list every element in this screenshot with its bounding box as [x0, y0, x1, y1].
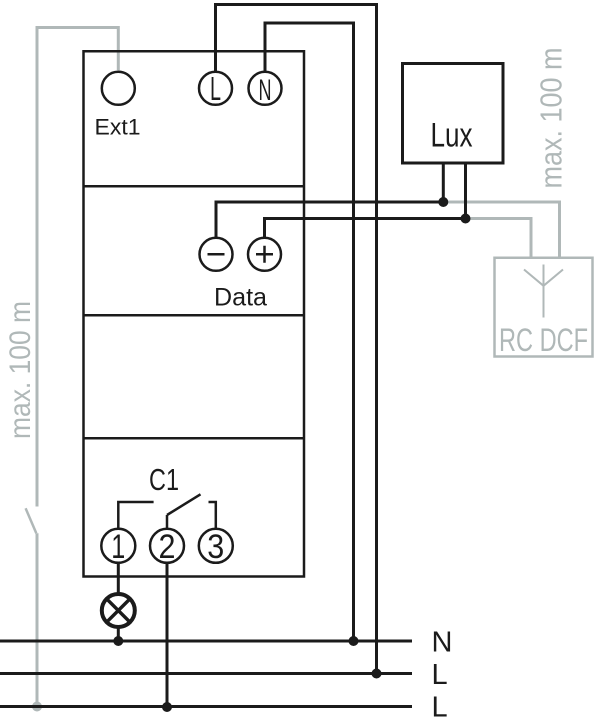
svg-text:Data: Data — [214, 284, 267, 312]
terminal Ext1 — [102, 72, 135, 105]
main device box — [84, 51, 305, 576]
lamp E1 — [102, 594, 135, 627]
wire gray Data+ to RC DCF box — [466, 219, 532, 258]
relay contact C1: terminal 1 fixed contact — [118, 502, 153, 529]
relay contact C1: blade — [167, 494, 201, 515]
divider line 3 — [84, 437, 305, 440]
terminal L — [199, 72, 232, 105]
svg-text:1: 1 — [111, 528, 125, 566]
junction dot L bus / terminal L wire — [372, 669, 382, 679]
junction dot lamp / N bus — [113, 636, 123, 646]
terminal 3 — [199, 529, 233, 563]
wire gray Ext1 external line (top run) — [37, 28, 118, 507]
wire terminal L to L bus — [216, 5, 377, 674]
svg-text:RC DCF: RC DCF — [499, 322, 588, 358]
svg-text:3: 3 — [207, 528, 224, 566]
svg-text:Ext1: Ext1 — [95, 115, 141, 140]
svg-text:N: N — [432, 626, 453, 658]
svg-text:max. 100 m: max. 100 m — [534, 48, 569, 189]
svg-text:Lux: Lux — [431, 117, 473, 155]
wire terminal 1 to lamp — [117, 563, 120, 594]
terminal Data+ — [248, 238, 281, 271]
relay contact C1: terminal 2 stub — [166, 515, 169, 529]
terminal 1 — [101, 529, 135, 563]
bus line L (bottom) — [0, 705, 412, 708]
svg-text:max. 100 m: max. 100 m — [4, 301, 37, 439]
wire terminal N to N bus — [265, 23, 354, 641]
divider line 1 — [84, 185, 305, 188]
junction dot terminal 2 / bottom L bus — [162, 702, 172, 712]
svg-text:L: L — [210, 70, 221, 107]
divider line 2 — [84, 314, 305, 317]
svg-text:2: 2 — [159, 528, 176, 566]
relay contact C1: terminal 3 fixed contact — [209, 502, 216, 529]
terminal N — [249, 72, 282, 105]
terminal 2 — [150, 529, 184, 563]
svg-text:N: N — [259, 74, 272, 107]
wire terminal 2 to bottom L bus — [166, 563, 169, 707]
wire Lux left lead — [442, 163, 445, 202]
RC DCF antenna box — [495, 258, 593, 357]
junction dot Data-/Lux — [438, 197, 448, 207]
junction gray dot on bottom L bus — [32, 702, 42, 712]
switch S1 blade (gray external switch) — [26, 508, 37, 533]
bus line N — [0, 640, 412, 643]
wire Data+ to Lux — [265, 219, 466, 238]
terminal Data- — [200, 238, 233, 271]
wire gray switch to bottom L bus — [36, 533, 39, 706]
Lux sensor box — [403, 64, 504, 164]
wire gray Data- to RC DCF box — [443, 202, 559, 258]
svg-text:L: L — [432, 691, 448, 720]
svg-text:C1: C1 — [149, 462, 179, 497]
junction dot Data+/Lux — [461, 214, 471, 224]
wire Lux right lead — [464, 163, 467, 219]
junction dot N bus / terminal N wire — [349, 636, 359, 646]
wire Data- to Lux — [216, 202, 443, 238]
antenna symbol — [524, 265, 563, 318]
bus line L (middle) — [0, 672, 412, 675]
wire lamp to N bus — [117, 627, 120, 641]
svg-text:L: L — [432, 659, 448, 691]
